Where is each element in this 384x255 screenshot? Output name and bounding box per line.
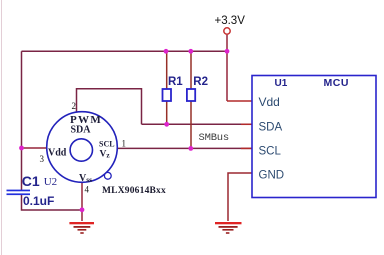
svg-text:MLX90614Bxx: MLX90614Bxx (102, 186, 166, 196)
svg-text:MCU: MCU (324, 77, 349, 89)
wire left rail down to C1 (21, 51, 23, 190)
wire SDA line (142, 123, 253, 125)
svg-text:C1: C1 (22, 173, 40, 189)
svg-text:SMBus: SMBus (199, 132, 230, 144)
wire Vdd into MCU (227, 100, 252, 102)
svg-text:SDA: SDA (71, 125, 92, 136)
wire pin2 PWM/SDA riser (77, 89, 142, 125)
svg-text:R2: R2 (193, 76, 208, 88)
capacitor C1 (7, 190, 31, 192)
svg-text:SDA: SDA (259, 121, 283, 133)
wire +3.3V stem (226, 35, 228, 101)
svg-text:1: 1 (122, 139, 127, 149)
svg-text:Vdd: Vdd (48, 148, 67, 159)
wire SCL line (118, 147, 253, 149)
node junction R2 SCL (188, 146, 193, 151)
svg-text:Vss: Vss (79, 173, 92, 184)
svg-text:3: 3 (40, 154, 45, 164)
svg-text:GND: GND (259, 170, 285, 182)
sensor tab circle (104, 172, 111, 179)
node junction Vss ground (80, 207, 85, 212)
wire Vdd pin3 (22, 147, 48, 149)
wire R1 top (166, 51, 168, 89)
ground MCU (215, 222, 242, 234)
svg-text:R1: R1 (168, 76, 183, 88)
transistor U2 sensor can (47, 112, 118, 183)
node junction top R1 (164, 49, 169, 54)
op-amp U1 MCU box (252, 76, 376, 198)
resistor R2 (187, 89, 195, 101)
wire R2 top (190, 51, 192, 89)
svg-text:4: 4 (85, 185, 90, 195)
svg-text:+3.3V: +3.3V (215, 15, 246, 27)
svg-text:U2: U2 (44, 176, 57, 188)
svg-text:Vz: Vz (100, 150, 111, 160)
svg-text:SCL: SCL (99, 140, 115, 149)
wire R2 bottom (190, 101, 192, 148)
sensor inner circle (70, 139, 92, 161)
wire R1 bottom (166, 101, 168, 124)
power +3.3V terminal (224, 28, 230, 34)
svg-text:Vdd: Vdd (259, 95, 280, 109)
wire GND stub (228, 173, 252, 221)
svg-text:U1: U1 (275, 78, 288, 89)
wire C1 bottom to ground run (22, 195, 83, 211)
node junction R1 SDA (164, 122, 169, 127)
ground sensor (69, 222, 94, 234)
resistor R1 (163, 89, 172, 101)
wire Vss drop to ground (81, 183, 83, 221)
svg-text:SCL: SCL (259, 146, 282, 158)
node junction top 3.3V (225, 49, 230, 54)
node junction top R2 (188, 49, 193, 54)
pin stub SCL MCU (241, 147, 252, 149)
svg-text:2: 2 (72, 101, 77, 111)
pin stub SDA MCU (241, 123, 252, 125)
wire top +3.3V rail (22, 50, 228, 52)
svg-text:0.1uF: 0.1uF (23, 194, 54, 208)
node junction left Vdd (19, 146, 24, 151)
